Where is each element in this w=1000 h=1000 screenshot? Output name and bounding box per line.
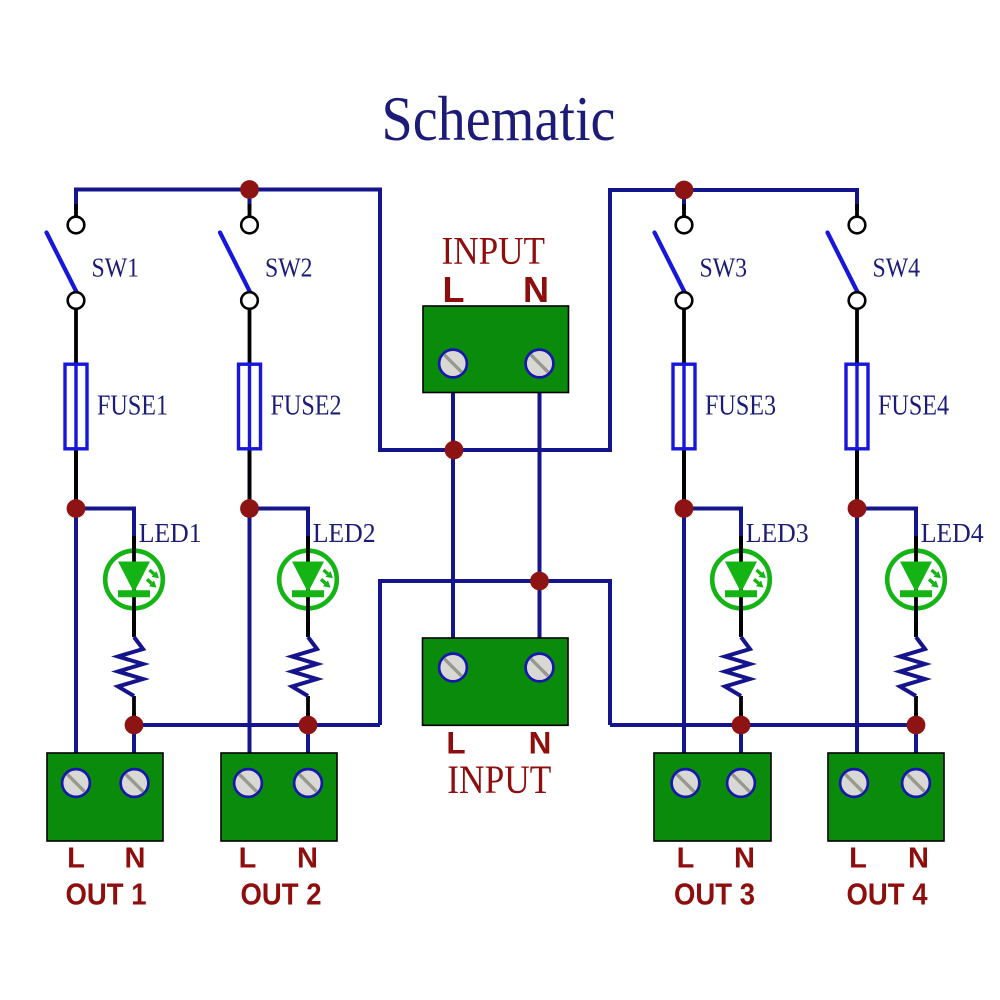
- svg-text:LED3: LED3: [746, 517, 809, 548]
- svg-text:N: N: [297, 843, 318, 875]
- svg-text:N: N: [734, 843, 755, 875]
- svg-text:OUT 2: OUT 2: [241, 877, 322, 912]
- svg-text:L: L: [239, 843, 257, 875]
- svg-text:SW3: SW3: [700, 253, 748, 283]
- svg-text:N: N: [908, 843, 929, 875]
- svg-text:OUT 4: OUT 4: [847, 877, 929, 912]
- svg-text:Schematic: Schematic: [382, 84, 616, 154]
- svg-text:L: L: [67, 843, 85, 875]
- svg-text:FUSE2: FUSE2: [271, 391, 342, 422]
- svg-text:SW4: SW4: [873, 253, 921, 283]
- svg-text:FUSE4: FUSE4: [878, 391, 949, 422]
- svg-text:SW1: SW1: [92, 253, 140, 283]
- svg-text:INPUT: INPUT: [442, 230, 546, 273]
- svg-text:L: L: [849, 843, 867, 875]
- svg-text:LED1: LED1: [139, 517, 202, 548]
- svg-text:N: N: [125, 843, 146, 875]
- svg-text:L: L: [446, 725, 465, 761]
- svg-text:N: N: [523, 269, 549, 310]
- svg-text:L: L: [677, 843, 695, 875]
- svg-text:SW2: SW2: [265, 253, 313, 283]
- svg-text:LED4: LED4: [921, 517, 984, 548]
- svg-text:INPUT: INPUT: [447, 757, 551, 802]
- svg-text:OUT 3: OUT 3: [674, 877, 755, 912]
- svg-text:FUSE3: FUSE3: [705, 391, 776, 422]
- svg-text:FUSE1: FUSE1: [97, 391, 168, 422]
- svg-text:L: L: [443, 269, 465, 310]
- svg-text:N: N: [529, 725, 552, 761]
- svg-text:LED2: LED2: [313, 517, 376, 548]
- svg-text:OUT 1: OUT 1: [66, 877, 147, 912]
